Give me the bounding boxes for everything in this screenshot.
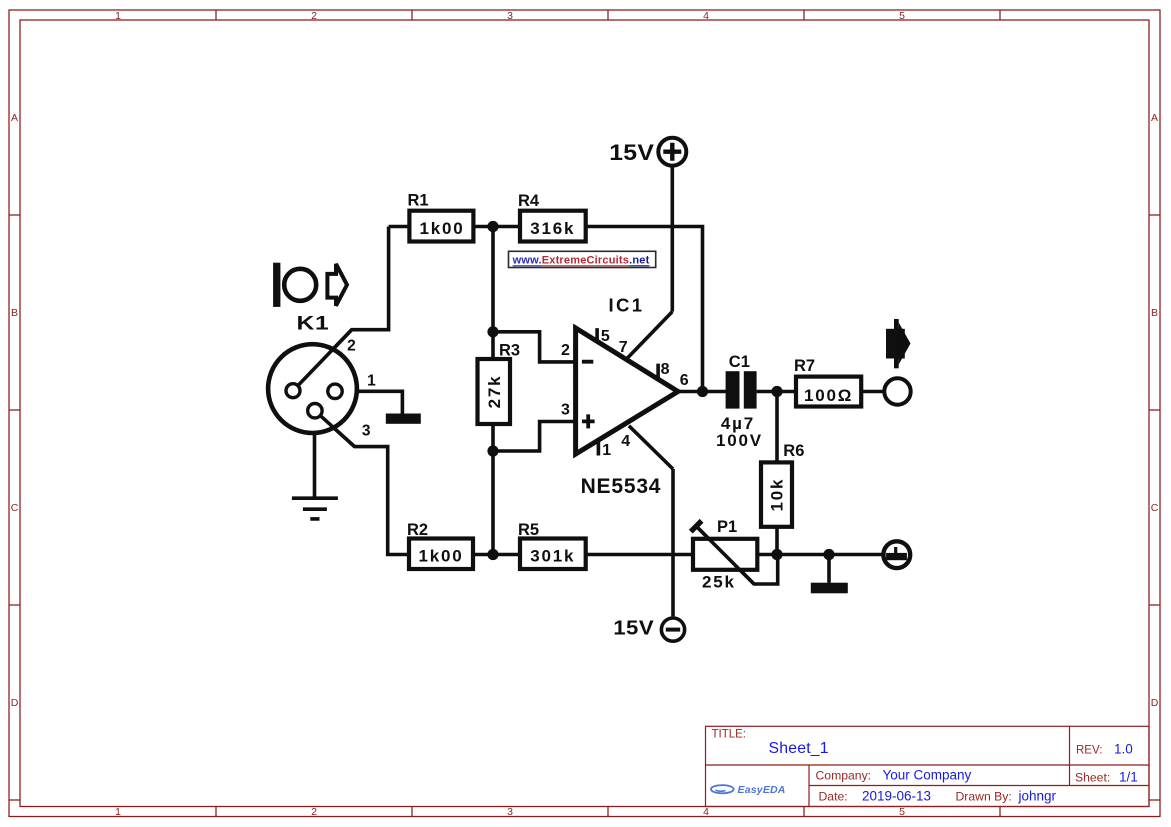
svg-text:Drawn By:: Drawn By: <box>956 789 1012 803</box>
svg-text:IC1: IC1 <box>609 295 645 316</box>
svg-text:2: 2 <box>311 806 317 818</box>
svg-text:100Ω: 100Ω <box>804 386 853 405</box>
svg-text:3: 3 <box>362 423 371 440</box>
svg-text:D: D <box>1151 697 1159 709</box>
svg-text:7: 7 <box>619 339 628 356</box>
svg-text:C: C <box>11 502 19 514</box>
svg-text:1: 1 <box>115 10 121 22</box>
svg-text:5: 5 <box>899 806 905 818</box>
svg-text:3: 3 <box>507 806 513 818</box>
svg-text:C: C <box>1151 502 1159 514</box>
svg-text:1: 1 <box>367 373 376 390</box>
svg-text:2: 2 <box>347 338 356 355</box>
svg-text:15V: 15V <box>609 141 654 166</box>
svg-text:EasyEDA: EasyEDA <box>738 784 786 796</box>
svg-text:8: 8 <box>661 361 670 378</box>
svg-text:1/1: 1/1 <box>1119 770 1138 785</box>
svg-text:K1: K1 <box>297 312 330 334</box>
svg-text:R5: R5 <box>518 521 539 539</box>
svg-text:1k00: 1k00 <box>419 219 464 238</box>
svg-text:P1: P1 <box>717 518 737 536</box>
svg-text:2: 2 <box>561 342 570 359</box>
svg-text:15V: 15V <box>613 616 654 639</box>
svg-text:Your Company: Your Company <box>883 768 972 783</box>
svg-text:5: 5 <box>899 10 905 22</box>
svg-text:10k: 10k <box>767 478 786 512</box>
svg-text:1: 1 <box>602 442 611 459</box>
svg-text:B: B <box>11 307 18 319</box>
svg-text:R2: R2 <box>407 521 428 539</box>
svg-text:Sheet_1: Sheet_1 <box>769 740 829 757</box>
svg-text:D: D <box>11 697 19 709</box>
svg-text:R4: R4 <box>518 192 540 210</box>
svg-text:C1: C1 <box>729 353 750 371</box>
svg-text:4: 4 <box>703 10 709 22</box>
svg-text:2: 2 <box>311 10 317 22</box>
svg-text:R6: R6 <box>783 442 804 460</box>
svg-text:4: 4 <box>621 433 630 450</box>
svg-text:TITLE:: TITLE: <box>712 729 747 741</box>
svg-text:4: 4 <box>703 806 709 818</box>
svg-text:R3: R3 <box>499 342 520 360</box>
svg-text:1: 1 <box>115 806 121 818</box>
svg-text:25k: 25k <box>702 572 736 591</box>
svg-text:2019-06-13: 2019-06-13 <box>862 789 931 804</box>
svg-text:Sheet:: Sheet: <box>1075 771 1110 785</box>
svg-text:R7: R7 <box>794 357 815 375</box>
svg-text:A: A <box>1151 112 1158 124</box>
svg-text:100V: 100V <box>716 431 763 450</box>
svg-text:A: A <box>11 112 18 124</box>
svg-text:1k00: 1k00 <box>418 547 463 566</box>
svg-text:Date:: Date: <box>819 789 848 803</box>
svg-text:3: 3 <box>561 401 570 418</box>
svg-text:B: B <box>1151 307 1158 319</box>
svg-text:Company:: Company: <box>816 768 872 782</box>
svg-text:5: 5 <box>601 328 610 345</box>
svg-text:www.ExtremeCircuits.net: www.ExtremeCircuits.net <box>512 255 650 267</box>
svg-text:27k: 27k <box>485 375 504 409</box>
svg-text:johngr: johngr <box>1018 789 1057 804</box>
svg-text:316k: 316k <box>530 219 575 238</box>
svg-text:NE5534: NE5534 <box>581 475 662 498</box>
svg-text:6: 6 <box>680 372 689 389</box>
svg-text:301k: 301k <box>530 547 575 566</box>
svg-text:REV:: REV: <box>1076 745 1102 757</box>
svg-text:1.0: 1.0 <box>1114 742 1133 757</box>
svg-text:3: 3 <box>507 10 513 22</box>
svg-text:R1: R1 <box>408 192 429 210</box>
